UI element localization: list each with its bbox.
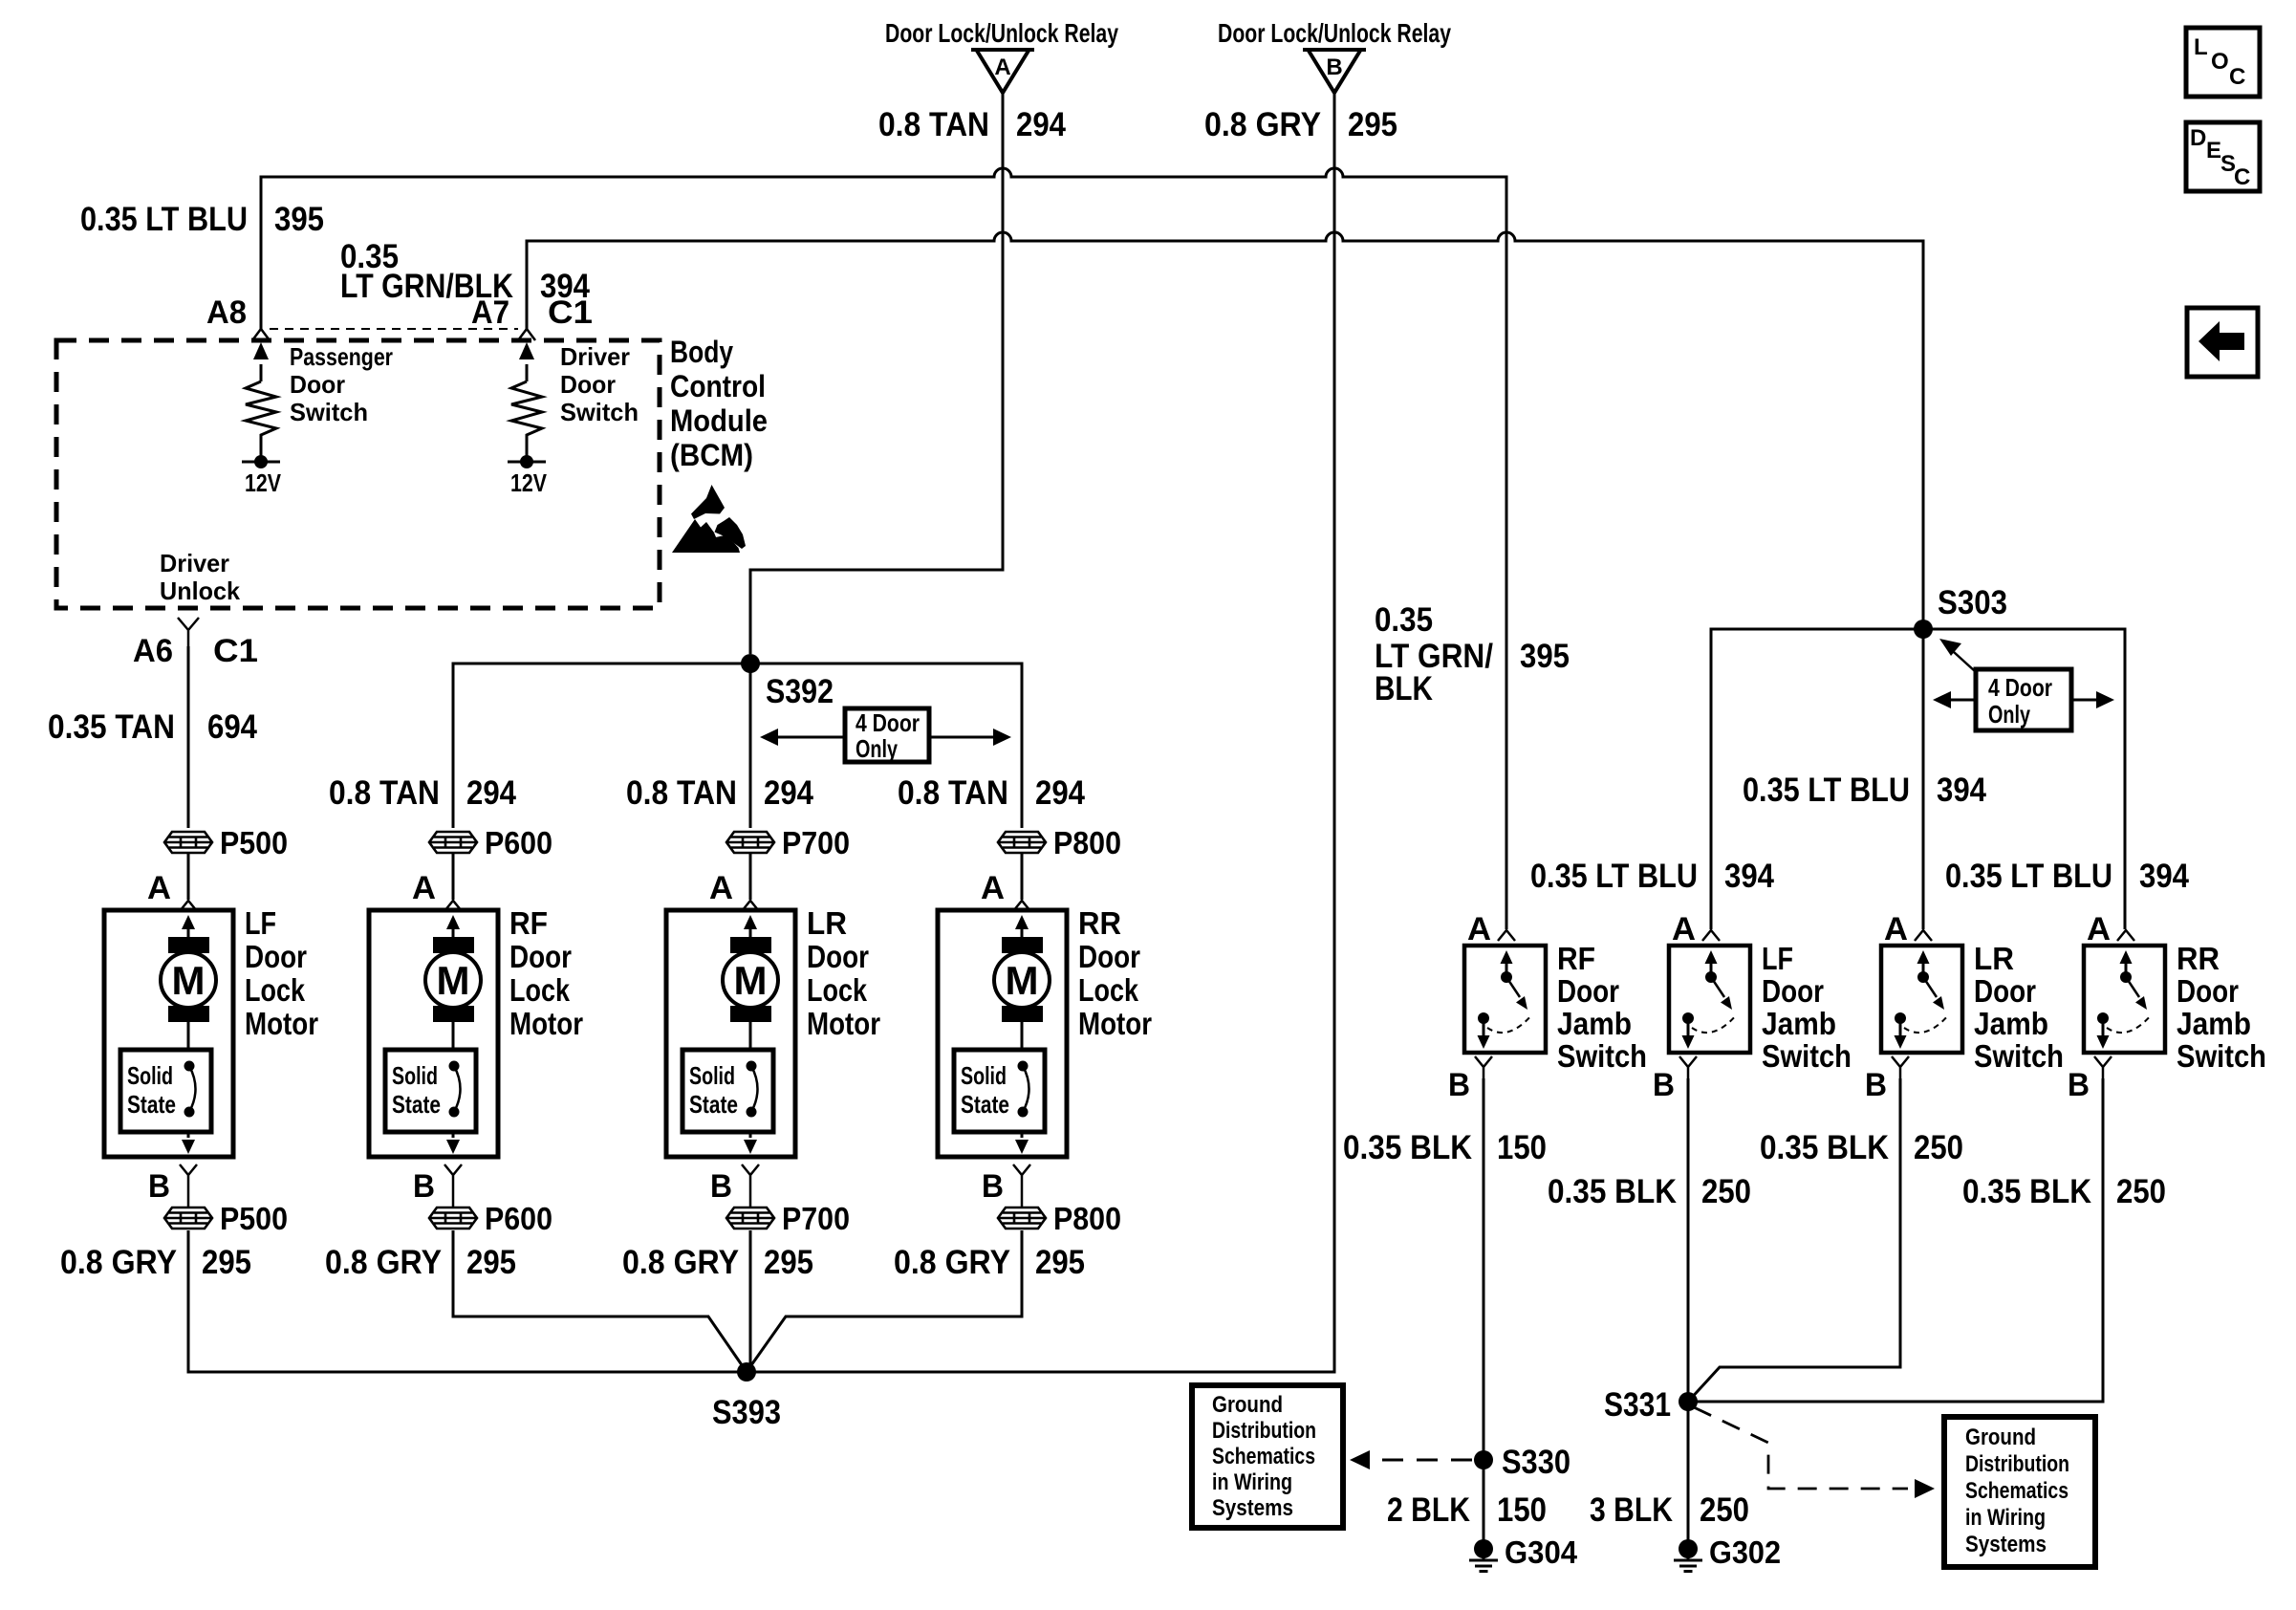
svg-text:0.35 BLK: 0.35 BLK: [1962, 1173, 2091, 1210]
svg-text:S331: S331: [1604, 1386, 1671, 1424]
svg-text:395: 395: [1520, 638, 1570, 675]
pin A of RF door lock motor: [412, 870, 462, 911]
svg-text:Solid: Solid: [961, 1061, 1007, 1090]
svg-text:RF: RF: [1557, 941, 1595, 976]
wire P600 to motor pin A: [452, 853, 455, 900]
RF Door Lock Motor box: [369, 905, 583, 1157]
pin B of LR door lock motor: [710, 1164, 759, 1207]
svg-text:E: E: [2206, 138, 2221, 163]
RF Door Jamb Switch box: [1464, 941, 1647, 1074]
note box: Ground Distribution Schematics in Wiring Systems (left): [1192, 1385, 1343, 1528]
pin A of RR door lock motor: [981, 870, 1030, 911]
svg-text:C: C: [2229, 64, 2245, 90]
svg-text:Lock: Lock: [807, 972, 868, 1008]
svg-text:Door: Door: [560, 370, 616, 399]
svg-text:B: B: [710, 1168, 732, 1205]
pin B of LF door jamb switch: [1653, 1056, 1697, 1103]
svg-text:Only: Only: [856, 734, 898, 763]
wire: LF jamb B 0.35 BLK 250 to S331/G302: [1687, 1078, 1690, 1540]
svg-text:0.35 LT BLU: 0.35 LT BLU: [80, 201, 248, 238]
svg-text:P700: P700: [782, 825, 850, 860]
wire: 0.8 TAN 294 from relay A down to S392: [750, 93, 1003, 654]
svg-text:O: O: [2211, 49, 2229, 75]
pin A of LF door lock motor: [147, 870, 197, 911]
pin B of RF door lock motor: [413, 1164, 462, 1207]
wire label 0.8 TAN 294 (relay A): [878, 106, 1066, 143]
svg-text:A: A: [147, 870, 171, 906]
relay symbol: Door Lock/Unlock Relay A: [885, 18, 1118, 93]
svg-text:Control: Control: [670, 369, 766, 403]
svg-text:Ground: Ground: [1965, 1425, 2036, 1450]
svg-text:B: B: [1865, 1067, 1887, 1103]
svg-text:Switch: Switch: [2177, 1038, 2266, 1074]
svg-text:Motor: Motor: [509, 1006, 583, 1041]
svg-text:BLK: BLK: [1375, 670, 1433, 707]
svg-text:Door: Door: [1974, 973, 2036, 1009]
motor M symbol (RF): [425, 915, 481, 1050]
svg-text:M: M: [1006, 958, 1039, 1003]
splice S393: [712, 1362, 781, 1431]
svg-text:D: D: [2190, 125, 2206, 151]
svg-text:Jamb: Jamb: [1762, 1006, 1836, 1041]
svg-text:150: 150: [1497, 1129, 1547, 1166]
wire: 0.35 LT GRN/BLK 394 from BCM A7 across to S303 and down to LR door jamb switch: [527, 232, 1923, 929]
svg-text:394: 394: [1724, 858, 1774, 895]
dashed reference arrow from S330 to Ground Distribution box: [1350, 1450, 1472, 1469]
wire solid-state to motor pin B (RF): [446, 1132, 460, 1154]
svg-text:Lock: Lock: [245, 972, 306, 1008]
svg-text:B: B: [2068, 1067, 2090, 1103]
svg-text:P700: P700: [782, 1201, 850, 1236]
switch contacts (RF): [1478, 950, 1533, 1049]
svg-text:Motor: Motor: [1078, 1006, 1152, 1041]
wire label 0.35 LT BLU 394 (RR jamb): [1945, 858, 2189, 895]
svg-text:A: A: [412, 870, 436, 906]
svg-text:Ground: Ground: [1212, 1392, 1283, 1418]
svg-text:S393: S393: [712, 1394, 781, 1431]
svg-text:Door Lock/Unlock Relay: Door Lock/Unlock Relay: [885, 18, 1118, 48]
splice S330: [1474, 1444, 1570, 1481]
svg-text:A: A: [1884, 911, 1908, 947]
Solid State switch box (LR): [682, 1050, 773, 1132]
wire P500 to motor pin A: [187, 853, 190, 900]
svg-text:P800: P800: [1053, 825, 1121, 860]
svg-text:0.35 BLK: 0.35 BLK: [1343, 1129, 1472, 1166]
svg-text:250: 250: [1701, 1173, 1751, 1210]
svg-text:Distribution: Distribution: [1212, 1418, 1316, 1444]
svg-text:0.35 LT BLU: 0.35 LT BLU: [1743, 772, 1910, 809]
note box: 4 Door Only (S392): [760, 708, 1011, 763]
inline connector P800 (pin B side): [998, 1201, 1121, 1236]
svg-text:RR: RR: [2177, 941, 2220, 976]
svg-text:Motor: Motor: [245, 1006, 318, 1041]
svg-text:294: 294: [1035, 774, 1085, 812]
svg-text:295: 295: [1348, 106, 1397, 143]
wire: LR motor B return to S393: [749, 1230, 752, 1372]
svg-text:Jamb: Jamb: [1974, 1006, 2048, 1041]
Solid State switch box (RR): [954, 1050, 1045, 1132]
svg-text:Door: Door: [1762, 973, 1824, 1009]
svg-text:(BCM): (BCM): [670, 438, 753, 472]
svg-text:P600: P600: [485, 1201, 552, 1236]
inline connector P700 (pin B side): [726, 1201, 850, 1236]
svg-text:Lock: Lock: [1078, 972, 1139, 1008]
pin B of LF door lock motor: [148, 1164, 197, 1207]
wire: S303 horizontal to LF and RR door jamb switches: [1711, 629, 2125, 929]
svg-text:250: 250: [2116, 1173, 2166, 1210]
wire solid-state to motor pin B (RR): [1015, 1132, 1029, 1154]
svg-text:295: 295: [466, 1244, 516, 1281]
svg-text:295: 295: [1035, 1244, 1085, 1281]
wire label 0.35 TAN 694: [48, 708, 257, 746]
LR Door Jamb Switch box: [1881, 941, 2064, 1074]
LF Door Lock Motor box: [104, 905, 318, 1157]
pin A of RF door jamb switch: [1467, 911, 1515, 947]
wire label 0.35 BLK 150 (RF jamb B): [1343, 1129, 1547, 1166]
legend box DESC: [2186, 122, 2260, 191]
svg-text:Solid: Solid: [689, 1061, 735, 1090]
svg-text:Door Lock/Unlock Relay: Door Lock/Unlock Relay: [1218, 18, 1451, 48]
svg-text:0.8 TAN: 0.8 TAN: [329, 774, 440, 812]
svg-text:C: C: [2234, 164, 2250, 190]
svg-text:250: 250: [1914, 1129, 1963, 1166]
BCM pin A8: [206, 294, 270, 340]
svg-text:Door: Door: [509, 939, 572, 974]
svg-text:State: State: [392, 1090, 441, 1119]
svg-text:0.35 LT BLU: 0.35 LT BLU: [1945, 858, 2112, 895]
note box: Ground Distribution Schematics in Wiring Systems (right): [1944, 1417, 2095, 1567]
svg-text:Body: Body: [670, 335, 733, 369]
resistor: Driver Door Switch (inside BCM): [508, 342, 639, 497]
switch contacts (RR): [2097, 950, 2153, 1049]
wire label 0.8 TAN 294 (x=1069): [898, 774, 1085, 812]
svg-text:394: 394: [2139, 858, 2189, 895]
inline connector P500 (pin B side): [164, 1201, 288, 1236]
svg-text:Door: Door: [2177, 973, 2239, 1009]
svg-text:M: M: [734, 958, 768, 1003]
svg-text:A: A: [981, 870, 1005, 906]
svg-text:0.8 GRY: 0.8 GRY: [325, 1244, 442, 1281]
svg-text:LR: LR: [807, 905, 847, 941]
note box: 4 Door Only (S303): [1933, 639, 2114, 730]
svg-text:150: 150: [1497, 1491, 1547, 1529]
svg-text:Switch: Switch: [1762, 1038, 1852, 1074]
inline connector P600 (pin A side): [429, 825, 552, 860]
svg-text:Schematics: Schematics: [1212, 1444, 1315, 1469]
svg-text:S392: S392: [766, 673, 834, 710]
pin A of LR door jamb switch: [1884, 911, 1932, 947]
svg-text:P800: P800: [1053, 1201, 1121, 1236]
svg-text:294: 294: [1016, 106, 1066, 143]
RR Door Jamb Switch box: [2084, 941, 2266, 1074]
svg-text:B: B: [1448, 1067, 1470, 1103]
svg-text:Schematics: Schematics: [1965, 1478, 2069, 1504]
svg-text:0.8 GRY: 0.8 GRY: [894, 1244, 1010, 1281]
svg-text:State: State: [961, 1090, 1009, 1119]
svg-text:A: A: [994, 54, 1010, 80]
svg-text:A8: A8: [206, 294, 247, 331]
wire: RF jamb B 0.35 BLK 150 to S330/G304: [1483, 1078, 1485, 1540]
svg-text:B: B: [1326, 54, 1342, 80]
wire label 0.35 BLK 250 (RR jamb B): [1962, 1173, 2166, 1210]
wire label 0.8 TAN 294 (x=474): [329, 774, 516, 812]
wire label 0.8 GRY 295 (LF): [60, 1244, 251, 1281]
svg-text:A: A: [1672, 911, 1696, 947]
svg-text:694: 694: [207, 708, 257, 746]
wire label 0.8 GRY 295 (LR): [622, 1244, 813, 1281]
svg-text:12V: 12V: [510, 468, 548, 497]
svg-text:0.8 GRY: 0.8 GRY: [60, 1244, 177, 1281]
wire P700 to motor pin A: [749, 853, 752, 900]
wire: RF motor B return to S393: [453, 1230, 747, 1372]
svg-text:Switch: Switch: [1974, 1038, 2064, 1074]
svg-text:A7: A7: [471, 294, 509, 331]
legend box back-arrow: [2187, 308, 2258, 377]
svg-text:0.35 LT BLU: 0.35 LT BLU: [1530, 858, 1698, 895]
Solid State switch box (RF): [385, 1050, 476, 1132]
svg-text:P600: P600: [485, 825, 552, 860]
svg-text:0.35 TAN: 0.35 TAN: [48, 708, 175, 746]
splice S303: [1914, 584, 2007, 639]
wire label 0.8 GRY 295 (RF): [325, 1244, 516, 1281]
svg-text:RR: RR: [1078, 905, 1121, 941]
svg-text:294: 294: [466, 774, 516, 812]
wire: 0.35 LT BLU 395 from BCM A8 across top to RF door jamb switch: [261, 168, 1506, 929]
wire solid-state to motor pin B (LR): [744, 1132, 757, 1154]
svg-text:in Wiring: in Wiring: [1212, 1469, 1292, 1495]
svg-text:P500: P500: [220, 825, 288, 860]
Solid State switch box (LF): [120, 1050, 211, 1132]
svg-text:3 BLK: 3 BLK: [1590, 1491, 1673, 1529]
svg-text:B: B: [413, 1168, 435, 1205]
BCM pin A6 / C1: [133, 618, 258, 669]
svg-text:0.8 GRY: 0.8 GRY: [622, 1244, 739, 1281]
svg-text:B: B: [982, 1168, 1004, 1205]
svg-text:Only: Only: [1988, 700, 2030, 729]
svg-text:Systems: Systems: [1965, 1532, 2047, 1557]
svg-text:250: 250: [1700, 1491, 1749, 1529]
BCM output Driver Unlock label: [160, 549, 241, 605]
svg-text:Passenger: Passenger: [290, 342, 393, 371]
wire label 2 BLK 150: [1387, 1491, 1547, 1529]
pin B of RR door jamb switch: [2068, 1056, 2112, 1103]
svg-text:C1: C1: [213, 633, 258, 669]
svg-text:12V: 12V: [245, 468, 282, 497]
svg-text:A: A: [1467, 911, 1491, 947]
svg-text:Driver: Driver: [160, 549, 229, 577]
wire: RR motor B return to S393: [747, 1230, 1022, 1372]
BCM connector C1 label (top): [548, 294, 593, 331]
svg-text:395: 395: [274, 201, 324, 238]
wire label 0.35 LT BLU 394 (LR jamb): [1743, 772, 1986, 809]
svg-text:2 BLK: 2 BLK: [1387, 1491, 1470, 1529]
svg-text:Lock: Lock: [509, 972, 571, 1008]
svg-text:Door: Door: [290, 370, 345, 399]
svg-text:State: State: [689, 1090, 738, 1119]
svg-text:Switch: Switch: [290, 398, 368, 426]
svg-text:Solid: Solid: [127, 1061, 173, 1090]
svg-text:S303: S303: [1938, 584, 2007, 621]
wire label 0.35 BLK 250 (LR jamb B): [1760, 1129, 1963, 1166]
wire label 0.35 LT BLU 394 (LF jamb): [1530, 858, 1774, 895]
relay symbol: Door Lock/Unlock Relay B: [1218, 18, 1451, 93]
wire label 0.35 LT BLU 395: [80, 201, 324, 238]
RR Door Lock Motor box: [938, 905, 1152, 1157]
svg-text:0.35 BLK: 0.35 BLK: [1548, 1173, 1677, 1210]
pin B of RF door jamb switch: [1448, 1056, 1492, 1103]
ESD sensitive device symbol: [672, 485, 746, 553]
motor M symbol (LF): [161, 915, 216, 1050]
svg-text:M: M: [437, 958, 470, 1003]
pin A of LR door lock motor: [709, 870, 759, 911]
svg-text:Door: Door: [807, 939, 869, 974]
svg-text:P500: P500: [220, 1201, 288, 1236]
wire: 0.8 GRY 295 from relay B down to S393 bus and left to LF motor column: [188, 93, 1334, 1372]
svg-text:Driver: Driver: [560, 342, 630, 371]
wire solid-state to motor pin B (LF): [182, 1132, 195, 1154]
BCM name label: [670, 335, 768, 472]
svg-text:A: A: [709, 870, 733, 906]
svg-text:LF: LF: [1762, 941, 1793, 976]
LF Door Jamb Switch box: [1669, 941, 1852, 1074]
wire label 3 BLK 250: [1590, 1491, 1749, 1529]
pin B of LR door jamb switch: [1865, 1056, 1909, 1103]
svg-text:0.8 TAN: 0.8 TAN: [898, 774, 1008, 812]
dashed reference arrow from S331 to Ground Distribution box: [1694, 1407, 1935, 1498]
svg-text:4 Door: 4 Door: [1988, 673, 2052, 702]
wire P800 to motor pin A: [1021, 853, 1024, 900]
svg-text:C1: C1: [548, 294, 593, 331]
svg-text:L: L: [2194, 34, 2208, 60]
svg-text:A6: A6: [133, 633, 173, 669]
wire label 0.8 GRY 295 (relay B): [1204, 106, 1397, 143]
svg-text:B: B: [1653, 1067, 1675, 1103]
splice S331: [1604, 1386, 1698, 1424]
wire: RR jamb B 0.35 BLK 250 to S331: [1688, 1078, 2103, 1402]
svg-text:0.8 TAN: 0.8 TAN: [878, 106, 989, 143]
legend box LOC: [2186, 28, 2260, 97]
Body Control Module (BCM) dashed outline: [56, 340, 660, 608]
svg-text:State: State: [127, 1090, 176, 1119]
svg-text:B: B: [148, 1168, 170, 1205]
wire label 0.8 TAN 294 (x=785): [626, 774, 813, 812]
svg-text:Door: Door: [1078, 939, 1140, 974]
inline connector P700 (pin A side): [726, 825, 850, 860]
svg-text:394: 394: [1937, 772, 1986, 809]
switch contacts (LF): [1682, 950, 1738, 1049]
wire: S392 bus to door lock motors: [188, 646, 1022, 828]
svg-text:Switch: Switch: [1557, 1038, 1647, 1074]
dashed link between pins A8 and A7: [270, 328, 518, 330]
inline connector P500 (pin A side): [164, 825, 288, 860]
inline connector P800 (pin A side): [998, 825, 1121, 860]
svg-text:0.8 GRY: 0.8 GRY: [1204, 106, 1321, 143]
wire label 0.35 BLK 250 (LF jamb B): [1548, 1173, 1751, 1210]
motor M symbol (LR): [723, 915, 778, 1050]
svg-text:Motor: Motor: [807, 1006, 880, 1041]
svg-text:Systems: Systems: [1212, 1495, 1293, 1521]
motor M symbol (RR): [994, 915, 1050, 1050]
inline connector P600 (pin B side): [429, 1201, 552, 1236]
BCM pin A7: [471, 294, 535, 340]
svg-text:M: M: [172, 958, 206, 1003]
pin B of RR door lock motor: [982, 1164, 1030, 1207]
LR Door Lock Motor box: [666, 905, 880, 1157]
svg-text:Solid: Solid: [392, 1061, 438, 1090]
svg-text:295: 295: [202, 1244, 251, 1281]
svg-text:RF: RF: [509, 905, 548, 941]
pin A of RR door jamb switch: [2087, 911, 2134, 947]
svg-text:Door: Door: [245, 939, 307, 974]
svg-text:Jamb: Jamb: [1557, 1006, 1632, 1041]
splice S392: [741, 654, 834, 710]
svg-text:Module: Module: [670, 403, 768, 438]
svg-text:G302: G302: [1709, 1534, 1781, 1570]
svg-text:0.35: 0.35: [1375, 601, 1433, 639]
svg-text:A: A: [2087, 911, 2111, 947]
ground G302: [1674, 1534, 1781, 1572]
svg-text:Jamb: Jamb: [2177, 1006, 2251, 1041]
svg-text:Distribution: Distribution: [1965, 1451, 2069, 1477]
pin A of LF door jamb switch: [1672, 911, 1720, 947]
wire: LR jamb B 0.35 BLK 250 to S331: [1688, 1078, 1900, 1402]
svg-text:0.35 BLK: 0.35 BLK: [1760, 1129, 1889, 1166]
svg-text:0.8 TAN: 0.8 TAN: [626, 774, 737, 812]
wire label 0.8 GRY 295 (RR): [894, 1244, 1085, 1281]
svg-text:LF: LF: [245, 905, 276, 941]
wire label 0.35 LT GRN/BLK 395 (RF jamb): [1375, 601, 1570, 707]
svg-text:Unlock: Unlock: [160, 577, 241, 605]
svg-text:294: 294: [764, 774, 813, 812]
wire label 0.35 LT GRN/BLK 394: [340, 238, 590, 305]
svg-text:S330: S330: [1502, 1444, 1570, 1481]
resistor: Passenger Door Switch (inside BCM): [242, 342, 393, 497]
svg-text:LR: LR: [1974, 941, 2014, 976]
svg-text:Door: Door: [1557, 973, 1619, 1009]
svg-text:in Wiring: in Wiring: [1965, 1505, 2046, 1531]
svg-text:G304: G304: [1505, 1534, 1578, 1570]
svg-text:4 Door: 4 Door: [856, 708, 920, 737]
ground G304: [1469, 1534, 1578, 1572]
switch contacts (LR): [1895, 950, 1950, 1049]
svg-text:295: 295: [764, 1244, 813, 1281]
svg-text:Switch: Switch: [560, 398, 639, 426]
